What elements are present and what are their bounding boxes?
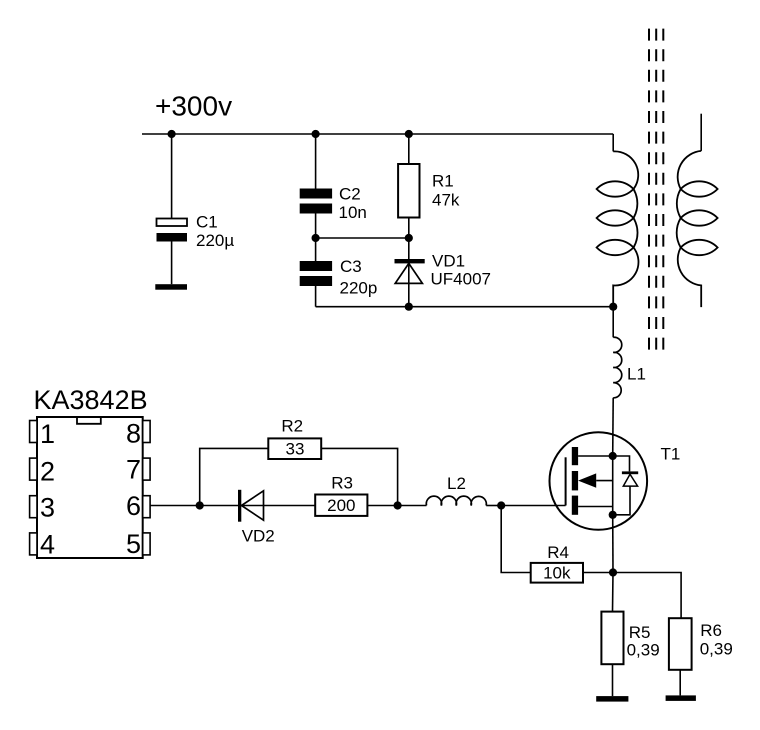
inductor L1 <box>613 337 646 398</box>
diode VD1 <box>395 251 491 288</box>
svg-text:T1: T1 <box>661 445 681 464</box>
svg-text:L2: L2 <box>447 474 466 493</box>
node T1 source <box>609 511 617 519</box>
svg-text:3: 3 <box>40 493 55 523</box>
IC U1 pin 3 <box>30 496 37 518</box>
wire C2 top lead <box>315 134 317 189</box>
transistor T1 body arrow <box>578 473 613 487</box>
transistor T1 channel bar drain <box>572 447 578 465</box>
diode VD2 <box>238 490 275 546</box>
svg-text:220p: 220p <box>340 278 378 297</box>
svg-text:R6: R6 <box>700 621 722 640</box>
IC U1 pin number 6 <box>126 491 141 521</box>
IC U1 pin number 1 <box>40 419 55 449</box>
capacitor C1 <box>157 213 235 251</box>
transformer secondary winding <box>677 114 718 307</box>
transistor T1 <box>550 432 681 530</box>
svg-text:VD1: VD1 <box>432 251 465 270</box>
wire node to L2 <box>398 505 427 507</box>
capacitor C2 <box>300 185 367 223</box>
resistor R3 <box>315 474 367 516</box>
transformer core <box>649 29 663 354</box>
ground C1 <box>155 284 187 290</box>
node L2/R4 <box>497 501 505 509</box>
IC U1 pin number 4 <box>40 530 55 560</box>
svg-text:R1: R1 <box>432 172 454 191</box>
IC U1 body <box>37 417 143 558</box>
node source/R4/R5/R6 <box>609 568 617 576</box>
resistor R1 <box>398 164 460 218</box>
IC U1 pin number 3 <box>40 493 55 523</box>
transistor T1 channel bar source <box>572 496 578 515</box>
wire C3 bottom lead <box>315 286 317 307</box>
wire R1 top lead <box>408 134 410 164</box>
transformer primary winding <box>597 134 639 307</box>
resistor R6 <box>669 618 733 670</box>
transistor T1 internal vertical <box>612 456 614 515</box>
transistor T1 source connection <box>578 506 613 508</box>
svg-text:220µ: 220µ <box>196 231 234 250</box>
net label +300v <box>155 91 232 122</box>
IC U1 KA3842B title <box>34 385 148 415</box>
resistor R4 <box>531 543 583 583</box>
wire source to node <box>612 515 614 573</box>
node top rail / R1 <box>405 130 413 138</box>
ground R6 <box>666 695 696 701</box>
node VD1 bottom <box>405 303 413 311</box>
wire bottom rail <box>316 306 614 308</box>
svg-text:R2: R2 <box>281 416 303 435</box>
svg-text:47k: 47k <box>432 190 460 209</box>
svg-text:33: 33 <box>286 439 305 458</box>
inductor L2 <box>426 474 486 506</box>
svg-text:UF4007: UF4007 <box>431 269 491 288</box>
svg-text:C2: C2 <box>339 185 361 204</box>
wire node to R5 <box>612 573 615 612</box>
IC U1 pin number 8 <box>126 418 141 448</box>
IC U1 pin 1 <box>30 421 37 443</box>
wire mid rail C2-R1 <box>316 237 409 239</box>
svg-text:5: 5 <box>126 529 141 559</box>
svg-text:R5: R5 <box>629 623 651 642</box>
svg-text:C3: C3 <box>340 257 362 276</box>
IC U1 pin 4 <box>30 533 37 555</box>
svg-text:2: 2 <box>40 456 55 486</box>
IC U1 pin 6 <box>143 496 150 518</box>
wire gate lead <box>501 505 565 507</box>
wire R1 bottom lead <box>408 218 410 239</box>
wire R5 bottom lead <box>612 664 614 696</box>
svg-text:10k: 10k <box>543 563 571 582</box>
IC U1 notch <box>77 417 101 424</box>
svg-text:R4: R4 <box>547 543 569 562</box>
wire pin6 to node <box>150 505 200 507</box>
node transformer bottom <box>609 303 617 311</box>
IC U1 pin 2 <box>30 458 37 480</box>
wire C3 top lead <box>315 238 317 261</box>
svg-text:8: 8 <box>126 418 141 448</box>
wire L2 to node <box>486 505 501 507</box>
svg-text:0,39: 0,39 <box>627 640 660 659</box>
IC U1 pin number 5 <box>126 529 141 559</box>
IC U1 pin 5 <box>143 533 150 555</box>
IC U1 pin 8 <box>143 421 150 443</box>
wire R4 left branch <box>501 506 531 573</box>
transistor T1 gate electrode <box>565 457 567 505</box>
node R3/L2 <box>394 501 402 509</box>
svg-text:6: 6 <box>126 491 141 521</box>
wire top rail <box>142 133 613 135</box>
node R1/VD1 <box>405 234 413 242</box>
wire C2 bottom lead <box>315 214 317 239</box>
wire node to VD2 <box>200 505 316 507</box>
wire L1 top lead <box>612 307 614 338</box>
IC U1 pin 7 <box>143 458 150 480</box>
transistor T1 body diode branch <box>613 456 639 515</box>
IC U1 pin number 7 <box>126 454 141 484</box>
svg-text:L1: L1 <box>627 364 646 383</box>
wire R4 right lead <box>583 572 613 574</box>
resistor R2 <box>268 416 321 459</box>
resistor R5 <box>601 612 659 665</box>
svg-text:KA3842B: KA3842B <box>34 385 148 415</box>
svg-text:1: 1 <box>40 419 55 449</box>
wire VD1 top lead <box>408 238 410 307</box>
svg-text:VD2: VD2 <box>242 526 275 545</box>
wire R2 left branch <box>200 448 269 505</box>
node T1 drain <box>609 452 617 460</box>
node top rail / C2 <box>312 130 320 138</box>
transistor T1 drain connection <box>578 455 613 457</box>
svg-text:200: 200 <box>327 496 355 515</box>
transistor T1 channel bar body <box>572 471 578 490</box>
svg-text:R3: R3 <box>331 474 353 493</box>
svg-text:C1: C1 <box>196 213 218 232</box>
svg-text:10n: 10n <box>339 203 367 222</box>
IC U1 pin number 2 <box>40 456 55 486</box>
svg-text:+300v: +300v <box>155 91 232 122</box>
ground R5 <box>596 696 628 702</box>
node top rail / C1 <box>168 130 176 138</box>
wire R2 right branch <box>321 448 397 505</box>
wire R3 to node <box>367 505 397 507</box>
wire L1 bottom lead / drain <box>612 398 615 456</box>
node gate row left <box>196 501 204 509</box>
svg-text:0,39: 0,39 <box>700 640 733 659</box>
node C2/C3 <box>312 234 320 242</box>
wire C1 top lead <box>171 134 173 219</box>
capacitor C3 <box>300 257 378 297</box>
wire C1 bottom lead <box>171 242 173 285</box>
svg-text:7: 7 <box>126 454 141 484</box>
wire R6 branch <box>613 573 681 619</box>
wire R6 bottom lead <box>679 670 681 696</box>
svg-text:4: 4 <box>40 530 55 560</box>
